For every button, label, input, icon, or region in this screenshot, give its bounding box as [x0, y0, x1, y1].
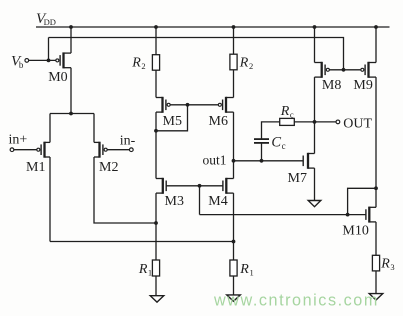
wire VDD to R2 left	[155, 27, 157, 55]
junction VDD-R2 right	[232, 25, 236, 29]
terminal OUT	[336, 120, 340, 124]
svg-text:R: R	[239, 262, 249, 277]
junction M3-M4 gates	[198, 184, 202, 188]
transistor M3	[156, 178, 166, 194]
wire in- to M2 gate	[107, 149, 129, 151]
wire R2 left to M5	[155, 70, 157, 97]
wire M5 gate lead	[170, 104, 187, 106]
svg-text:M10: M10	[342, 224, 368, 239]
junction M1-M4 source	[232, 240, 236, 244]
transistor M8	[315, 62, 330, 78]
svg-text:in+: in+	[9, 133, 28, 148]
resistor R1 right	[230, 260, 237, 276]
transistor M6	[218, 97, 233, 113]
terminal in+	[10, 148, 14, 152]
transistor M9	[361, 62, 376, 78]
svg-text:2: 2	[141, 61, 145, 71]
junction M5 gate-drain tie	[154, 129, 158, 133]
svg-text:R: R	[239, 55, 249, 70]
transistor M10	[366, 207, 376, 223]
wire M4 gate lead	[200, 185, 223, 187]
wire out1 to M7 gate	[234, 160, 304, 162]
wire M0 source	[70, 27, 72, 53]
svg-text:M3: M3	[165, 194, 184, 209]
resistor R3	[372, 255, 379, 271]
svg-text:1: 1	[250, 267, 254, 277]
wire VDD rail	[36, 26, 390, 28]
wire Vb to M0 gate	[29, 59, 56, 61]
wire M1 source	[49, 114, 51, 143]
wire gate line to M10	[200, 214, 348, 216]
svg-text:1: 1	[148, 267, 152, 277]
svg-text:DD: DD	[44, 17, 56, 27]
wire M3 source down	[155, 193, 157, 260]
wire VDD to M8	[314, 27, 316, 63]
wire Cc bottom lead	[261, 143, 263, 161]
ground R1 right	[227, 295, 241, 301]
transistor M2	[94, 142, 107, 158]
junction OUT node	[313, 120, 317, 124]
svg-text:c: c	[282, 141, 286, 151]
svg-text:M9: M9	[353, 78, 372, 93]
junction Vb-M0 gate	[47, 59, 51, 63]
wire Vb vertical	[48, 38, 50, 61]
svg-text:R: R	[138, 262, 148, 277]
svg-text:M6: M6	[209, 114, 228, 129]
svg-text:out1: out1	[203, 152, 227, 167]
transistor M4	[223, 178, 234, 194]
resistor R2 right	[230, 54, 237, 70]
wire M9 drain down	[375, 77, 377, 188]
svg-text:M5: M5	[163, 114, 182, 129]
wire M8-M9 gate line	[329, 69, 361, 71]
wire M8 drain to M7 drain	[314, 77, 316, 153]
svg-text:in-: in-	[120, 134, 136, 149]
svg-text:c: c	[290, 109, 294, 119]
svg-text:M0: M0	[48, 70, 67, 85]
svg-text:2: 2	[249, 61, 253, 71]
svg-text:C: C	[271, 134, 281, 150]
junction M10 tie	[346, 213, 350, 217]
junction out1	[232, 159, 236, 163]
wire R2 right to M6	[233, 70, 235, 98]
wire M10 source down	[375, 222, 377, 255]
junction M5-M6 gates	[186, 103, 190, 107]
junction tail node	[69, 112, 73, 116]
terminal in-	[129, 148, 133, 152]
svg-text:M7: M7	[288, 171, 307, 186]
svg-text:b: b	[19, 60, 24, 70]
wire M4 source down	[233, 193, 235, 260]
junction VDD-M8	[313, 25, 317, 29]
resistor R1 left	[152, 260, 159, 276]
wire gate junction drop	[199, 186, 201, 215]
wire M5 diode tie	[156, 105, 188, 131]
wire M1 drain to M4 source	[50, 241, 234, 243]
wire M2 source	[93, 114, 95, 143]
svg-text:M1: M1	[26, 160, 45, 175]
wire M0 drain to tail	[70, 68, 72, 114]
wire VDD to R2 right	[233, 27, 235, 54]
junction VDD-R2 left	[154, 25, 158, 29]
wire M6 gate lead	[188, 104, 219, 106]
junction VDD-M9	[374, 25, 378, 29]
junction M9-M10 drain	[374, 186, 378, 190]
svg-text:M4: M4	[208, 194, 227, 209]
wire Vb bias line	[49, 38, 344, 70]
wire VDD to M9	[375, 27, 377, 63]
wire R3 to ground	[375, 271, 377, 294]
ground M7	[308, 201, 321, 207]
junction M2-M3 source	[154, 221, 158, 225]
ground R1 left	[150, 296, 164, 302]
svg-text:www.cntronics.com: www.cntronics.com	[213, 292, 379, 310]
svg-text:3: 3	[390, 262, 394, 272]
wire M1 drain down	[49, 157, 51, 242]
svg-text:M8: M8	[322, 78, 341, 93]
svg-text:R: R	[380, 256, 390, 271]
transistor M7	[303, 153, 314, 169]
svg-text:M2: M2	[99, 160, 118, 175]
wire Rc to OUT	[294, 121, 336, 123]
wire M5 drain down to M3	[155, 112, 157, 178]
wire M6 drain down to M4	[233, 112, 235, 178]
terminal Vb	[25, 59, 29, 63]
wire M10 drain-gate tie	[348, 188, 376, 214]
transistor M1	[37, 142, 50, 158]
svg-text:R: R	[280, 104, 290, 119]
svg-text:OUT: OUT	[343, 117, 372, 132]
junction VDD-M0	[69, 25, 73, 29]
wire diff tail rail	[50, 113, 94, 115]
wire in+ to M1 gate	[14, 149, 37, 151]
junction bias-M8M9 gates	[342, 68, 346, 72]
ground R3	[369, 294, 383, 300]
resistor Rc	[280, 118, 295, 125]
wire M3 gate lead	[166, 185, 199, 187]
wire M2 drain down	[94, 157, 156, 223]
junction Cc bottom	[260, 159, 264, 163]
wire gate line to M10 bar	[348, 214, 366, 216]
resistor R2 left	[152, 55, 159, 70]
wire Cc top lead	[262, 122, 280, 139]
svg-text:R: R	[131, 55, 141, 70]
wire R1 left to ground	[155, 276, 157, 296]
transistor M5	[156, 97, 170, 113]
transistor M0	[56, 52, 71, 68]
wire R1 right to ground	[233, 276, 235, 295]
wire M7 source to ground	[314, 168, 316, 200]
capacitor Cc	[254, 139, 269, 143]
wire M10 drain up	[375, 188, 377, 207]
